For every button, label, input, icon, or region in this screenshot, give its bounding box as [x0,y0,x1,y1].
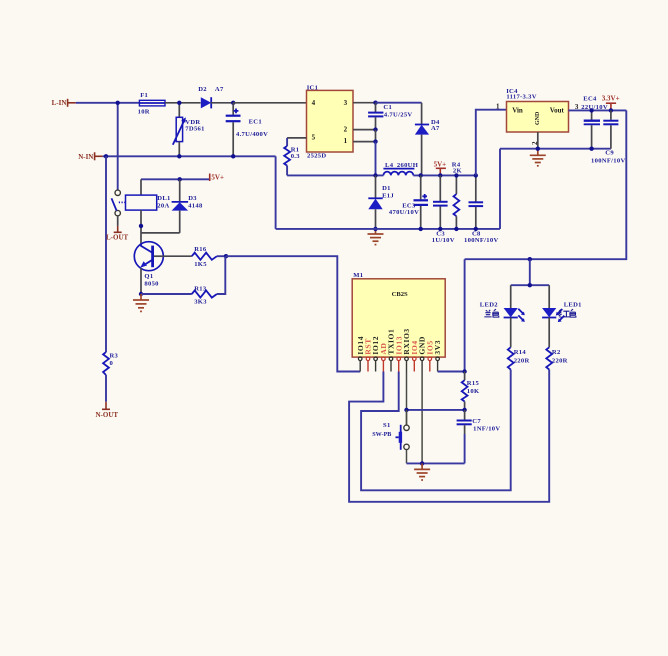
wire IO13 to R14 bottom [361,370,511,491]
svg-text:220R: 220R [552,358,568,365]
node D4 bottom junction [419,173,423,177]
svg-text:EC4: EC4 [583,96,597,103]
op-amp IC1 2525D [307,84,354,159]
pin IO14 [356,336,365,372]
wire button line [407,409,465,411]
svg-text:R14: R14 [514,349,527,356]
led LED2 blue [480,285,525,322]
svg-text:1117-3.3V: 1117-3.3V [506,94,536,101]
node VDR bottom junction [177,154,181,158]
pin RST [364,338,373,371]
port N-IN [78,152,103,161]
wire IC1 pin3 to SW node [353,102,376,104]
svg-text:R2: R2 [552,349,561,356]
svg-text:D1: D1 [382,185,391,192]
resistor R1 0.3 [284,138,306,176]
pin IO5 [425,340,434,371]
ground below D1 [368,229,384,245]
svg-text:D2: D2 [198,86,207,93]
pin IO13 [394,336,403,372]
svg-text:N-IN: N-IN [78,153,93,161]
svg-text:Vin: Vin [512,107,523,115]
wire IC4 Vout to 3.3V corner [569,109,627,111]
capacitor C7 1NF/10V [457,410,501,464]
wire emitter to R13 [141,293,192,295]
wire led feed down [529,259,531,285]
wire 5V to IC4 Vin [476,110,507,176]
svg-text:1NF/10V: 1NF/10V [473,426,500,433]
wire EC1 node to IC1 pin4 [233,102,306,104]
svg-text:Vout: Vout [550,107,565,115]
node VDR top junction [177,101,181,105]
wire L node down to relay switch [117,103,119,190]
node led split junction [528,283,532,287]
svg-text:10R: 10R [138,108,150,115]
wire L-IN to F1 [76,102,140,104]
svg-text:3: 3 [344,99,348,107]
wire F1 to D2 [165,102,201,104]
node D1 bottom junction [373,227,377,231]
svg-text:100NF/10V: 100NF/10V [464,237,499,244]
capacitor EC1 4.7U/400V [226,103,269,157]
node C9 top junction [609,108,613,112]
node EC3 bottom junction [419,227,423,231]
node SW top junction [373,101,377,105]
wire relay coil top lead [140,179,142,195]
node button gnd junction [420,461,424,465]
svg-text:10K: 10K [467,388,480,395]
capacitor C9 100NF/10V [591,110,626,164]
text red colour glyphs [559,309,576,317]
svg-text:8050: 8050 [144,281,159,288]
svg-text:A7: A7 [431,125,440,132]
port L-IN [52,99,76,107]
svg-text:470U/10V: 470U/10V [389,209,419,216]
wire IC1 pin2 lead [353,129,376,131]
svg-text:4.7U/400V: 4.7U/400V [236,131,268,138]
inductor L4 260UH [383,162,418,175]
resistor R3 0 [103,352,118,375]
wire gnd rail [276,228,500,230]
pin RXIO3 [402,328,411,371]
svg-text:3.3V+: 3.3V+ [602,95,620,103]
ground below IC4 [530,149,546,166]
relay coil DL1 20A [126,195,171,210]
text blue colour glyphs [484,309,498,317]
svg-text:100NF/10V: 100NF/10V [591,157,626,164]
node base drive junction [224,254,228,258]
node EC4 top junction [589,108,593,112]
svg-text:1U/10V: 1U/10V [432,237,455,244]
svg-text:1: 1 [344,137,348,145]
transistor Q1 8050 [134,242,163,294]
svg-text:2: 2 [344,125,348,133]
svg-text:C7: C7 [472,418,481,425]
node S1 top junction [404,408,408,412]
wire R3 to N-OUT [105,375,107,402]
capacitor EC4 22U/10V [581,96,608,149]
svg-text:M1: M1 [353,272,363,279]
svg-text:A7: A7 [215,86,224,93]
svg-text:C9: C9 [605,149,614,156]
node R4 top junction [454,173,458,177]
svg-text:2525D: 2525D [307,152,326,159]
resistor R15 10K [462,372,480,410]
capacitor C8 100NF/10V [464,175,499,244]
node R15 top junction [462,369,466,373]
wire gnd rail up to ldo gnd line [499,149,501,229]
resistor R2 220R [546,318,567,370]
node C3 top junction [438,173,442,177]
svg-text:4.7U/25V: 4.7U/25V [384,112,413,119]
svg-text:DL1: DL1 [157,195,170,202]
svg-text:0: 0 [110,360,114,367]
port L-OUT [106,226,129,241]
fuse F1 [138,92,165,115]
pin TXIO1 [387,329,396,372]
pin IO12 [371,336,380,372]
wire N rail drop to gnd rail [275,156,277,229]
svg-text:S1: S1 [383,422,391,429]
wire junction to module col [226,256,360,371]
led LED1 red [542,285,582,322]
wire led splitter [511,284,550,286]
resistor R16 1K5 [192,246,217,268]
wire IC1 pin1 lead [353,141,376,143]
svg-text:F1: F1 [140,92,148,99]
svg-text:22U/10V: 22U/10V [581,104,608,111]
wire R16 to junction [217,255,226,257]
node L junction [116,101,120,105]
diode D1 E1J [368,175,394,229]
node SW rail junction [373,173,377,177]
node pin1 junction [373,139,377,143]
wire 3.3V drop to module [464,259,466,371]
wire SW node down to rail [375,142,377,176]
node relay bottom junction [139,224,143,228]
svg-text:R13: R13 [194,286,207,293]
svg-text:5: 5 [312,133,316,141]
svg-text:L-IN: L-IN [52,99,67,107]
svg-text:220R: 220R [514,358,530,365]
svg-text:LED1: LED1 [564,301,582,308]
svg-text:E1J: E1J [382,193,394,200]
diode D2 [198,86,224,108]
regulator IC4 1117-3.3V [496,88,579,145]
capacitor EC3 470U/10V [389,175,428,229]
wire pin2 to pin1 [375,130,377,142]
node C8 top junction [474,173,478,177]
pin IO4 [410,340,419,371]
switch S1 SW-PB [372,410,409,450]
wire N-IN rail [103,155,276,157]
pin AD [379,343,388,372]
svg-text:20A: 20A [157,203,169,210]
resistor R14 220R [508,318,530,370]
node C3 bottom junction [438,227,442,231]
svg-text:4: 4 [312,99,316,107]
ground below button [414,463,430,480]
node C7 top junction [462,408,466,412]
port N-OUT [96,402,119,419]
svg-text:Q1: Q1 [144,273,153,280]
svg-text:EC1: EC1 [249,118,262,125]
svg-text:5V+: 5V+ [434,161,447,169]
svg-text:L4 260UH: L4 260UH [385,162,419,169]
relay contact switch [112,190,126,216]
wire S1 bottom to gnd line [406,450,408,464]
svg-text:1: 1 [496,103,500,111]
wire 3.3V down right side [465,110,627,259]
node C8 bottom junction [474,227,478,231]
node EC1 top junction [231,101,235,105]
power 5V+ relay [210,174,224,182]
wire D2 to EC1 node [211,102,233,104]
wire 3V3 to R15 [438,371,465,373]
svg-text:R16: R16 [194,246,207,253]
wire button gnd line [407,462,465,464]
ground below emitter [133,294,149,311]
svg-text:D3: D3 [188,195,197,202]
svg-text:4148: 4148 [188,203,203,210]
diode D4 A7 [415,103,440,176]
svg-text:SW-PB: SW-PB [372,432,391,438]
resistor R13 3K3 [192,286,217,306]
node R4 bottom junction [454,227,458,231]
node led feed junction [528,257,532,261]
node D3 top junction [178,177,182,181]
svg-text:N-OUT: N-OUT [96,411,119,419]
svg-text:IC1: IC1 [307,84,319,91]
svg-text:7D561: 7D561 [185,125,204,132]
svg-text:GND: GND [535,111,541,125]
svg-text:5V+: 5V+ [211,174,224,182]
pin 3V3 [433,340,442,372]
diode D3 4148 [141,179,203,233]
wire R13 up to base junction [217,256,225,294]
node pin2 junction [373,127,377,131]
svg-text:2K: 2K [453,168,463,175]
node N junction to N-OUT [104,154,108,158]
wire 5V relay line [141,178,210,180]
svg-text:L-OUT: L-OUT [106,233,129,241]
capacitor C1 4.7U/25V [368,103,412,130]
power 3.3V+ [602,95,620,111]
svg-text:R3: R3 [110,353,119,360]
wire AD to R2 bottom [349,370,549,502]
wire switch to L-OUT [117,216,119,226]
svg-text:R15: R15 [467,380,480,387]
capacitor C3 1U/10V [432,175,455,244]
module M1 CB2S [352,272,445,357]
wire N vertical to R3 [105,156,107,352]
wire IC4 gnd pin [537,132,539,149]
wire base to R16 [163,255,192,257]
svg-text:3K3: 3K3 [194,298,207,305]
wire relay bottom to collector [140,210,142,226]
node IC4 gnd junction [536,147,540,151]
svg-text:CB2S: CB2S [392,291,408,298]
wire SW node to D4 [376,102,422,104]
power 5V+ on rail [434,161,447,176]
wire gnd pin down [421,372,423,464]
wire SW rail (R1 to L4) [287,174,383,176]
svg-text:0.3: 0.3 [291,153,301,160]
wire ldo gnd line [500,148,611,150]
pin GND [418,336,427,371]
node EC1 bottom junction [231,154,235,158]
svg-text:1K5: 1K5 [194,261,207,268]
node emitter junction [139,292,143,296]
wire RXIO3 down to S1 [406,372,408,426]
svg-text:LED2: LED2 [480,301,498,308]
wire 5V rail (L4 to C8 node) [413,174,476,176]
svg-text:C1: C1 [383,104,392,111]
varistor VDR 7D561 [173,103,205,157]
node EC4 bottom junction [589,147,593,151]
resistor R4 2K [452,162,463,229]
svg-text:3V3: 3V3 [433,340,442,355]
